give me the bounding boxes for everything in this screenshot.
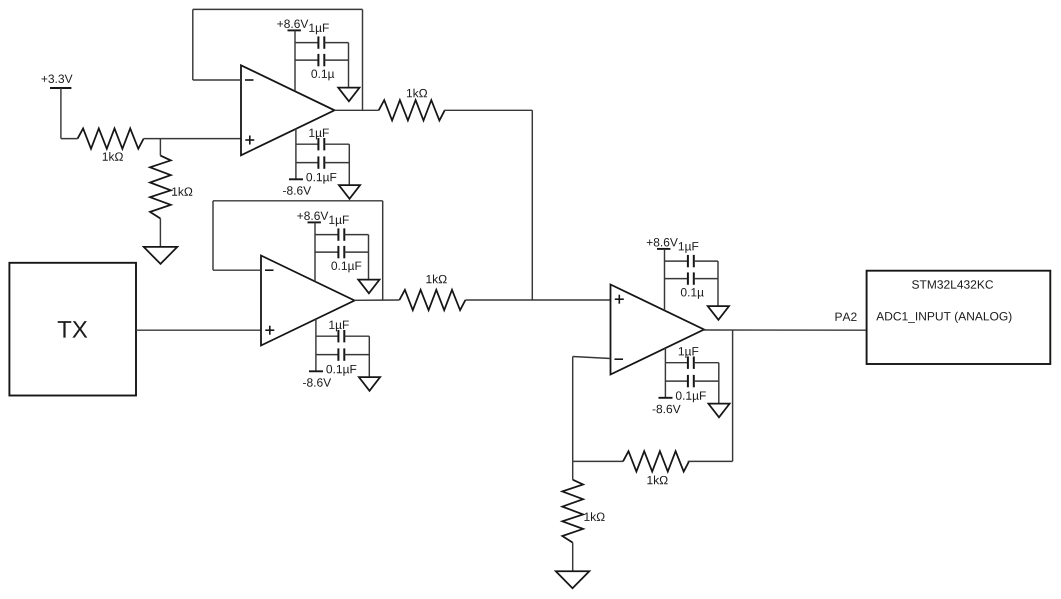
wire R5 to output node bbox=[688, 460, 733, 462]
resistor R1 1k bbox=[78, 128, 144, 148]
capacitor C 1uF +rail U2 bbox=[315, 234, 338, 236]
U2 non-inverting input (+) bbox=[265, 329, 274, 331]
U2 inverting input (-) bbox=[265, 269, 274, 271]
wire R3 to summing node bbox=[444, 109, 532, 111]
capacitor C 1uF -rail U1 bbox=[296, 143, 319, 145]
ground (U2 +rail caps) bbox=[358, 280, 379, 294]
label 0.1uF (U1 -rail) bbox=[306, 173, 336, 184]
wire U1 V- pin to -8.6V bbox=[295, 128, 297, 179]
wire U3 output to STM32 PA2 bbox=[704, 329, 871, 331]
+8.6V power bar (U2) bbox=[308, 221, 321, 223]
U1 non-inverting input (+) bbox=[245, 139, 254, 141]
wire down to summing node bbox=[531, 110, 533, 300]
wire U1 feedback right to output bbox=[362, 9, 364, 110]
label R4 1k bbox=[426, 275, 446, 284]
capacitor C 0.1uF +rail U1 bbox=[295, 59, 318, 61]
wire U1 output to R3 bbox=[335, 109, 379, 111]
-8.6V supply label (U3) bbox=[653, 405, 681, 413]
capacitor C 0.1uF +rail U2 bbox=[315, 251, 338, 253]
wire U3 V- pin to -8.6V bbox=[664, 348, 666, 398]
label 1uF (U1 +rail) bbox=[309, 24, 329, 35]
STM32L432KC label bbox=[912, 280, 993, 288]
capacitor C 1uF -rail U2 bbox=[316, 335, 339, 337]
wire U2 feedback right to output bbox=[382, 201, 384, 300]
label R5 1k bbox=[647, 476, 667, 485]
label 1uF (U3 -rail) bbox=[679, 347, 699, 358]
-8.6V power bar (U1) bbox=[289, 178, 303, 180]
ground (U2 -rail caps) bbox=[359, 377, 380, 391]
label 0.1µ (U1 +rail) bbox=[311, 70, 334, 81]
+8.6V supply label (U2) bbox=[297, 212, 328, 220]
-8.6V power bar (U3) bbox=[659, 397, 673, 399]
wire U2 feedback left bbox=[212, 201, 214, 270]
wire caps to ground (U3 +rail) bbox=[717, 261, 719, 306]
wire U1 - input feedback bbox=[193, 79, 241, 81]
wire feedback node down bbox=[572, 357, 574, 462]
label R2 1k bbox=[172, 187, 192, 196]
wire U2 output to R4 bbox=[354, 299, 399, 301]
wire to R1 bbox=[61, 138, 78, 140]
wire caps to ground (U2 +rail) bbox=[368, 235, 370, 280]
wire caps to ground (U1 +rail) bbox=[348, 43, 350, 88]
+8.6V power bar (U1) bbox=[288, 29, 301, 31]
wire +3.3V down bbox=[60, 88, 62, 139]
wire node to R6 bbox=[572, 461, 574, 479]
label R6 1k bbox=[584, 512, 604, 521]
op-amp U3 bbox=[611, 285, 705, 375]
ground (divider) bbox=[144, 247, 178, 264]
+8.6V supply label (U1) bbox=[277, 20, 308, 28]
U3 inverting input (-) bbox=[615, 358, 624, 360]
wire U1 feedback top bbox=[193, 8, 363, 10]
wire TX to U2 + input bbox=[136, 329, 261, 331]
label R3 1k bbox=[407, 89, 427, 98]
STM32L432KC block bbox=[867, 271, 1051, 364]
+3.3V power bar bbox=[50, 87, 71, 89]
pin PA2 label bbox=[835, 313, 856, 321]
+8.6V supply label (U3) bbox=[647, 238, 678, 246]
label R1 1k bbox=[103, 152, 123, 161]
resistor R5 1k feedback bbox=[623, 451, 689, 471]
op-amp U2 bbox=[261, 256, 355, 346]
wire +8.6V to U1 V+ pin bbox=[294, 30, 296, 91]
wire caps to ground (U2 -rail) bbox=[368, 336, 370, 377]
wire node to R2 bbox=[159, 139, 161, 156]
wire feedback up to output bbox=[732, 330, 734, 461]
wire caps to ground (U1 -rail) bbox=[348, 144, 350, 185]
label 1uF (U3 +rail) bbox=[679, 242, 699, 253]
label 0.1uF (U2 -rail) bbox=[326, 365, 356, 376]
-8.6V supply label (U1) bbox=[283, 186, 311, 194]
label 1uF (U2 -rail) bbox=[329, 321, 349, 332]
ground (U1 +rail caps) bbox=[338, 88, 359, 102]
wire R4 to U3 + input (summing node) bbox=[465, 299, 610, 301]
capacitor C 1uF -rail U3 bbox=[665, 362, 688, 364]
wire U1 feedback left bbox=[192, 9, 194, 80]
op-amp U1 bbox=[241, 65, 335, 155]
TX label bbox=[58, 321, 88, 338]
label 0.1µ (U3 +rail) bbox=[681, 288, 704, 299]
ADC1_INPUT label bbox=[876, 312, 1011, 323]
resistor R6 1k to ground bbox=[562, 480, 583, 543]
label 0.1µF (U2 +rail) bbox=[331, 262, 361, 273]
wire U2 V- pin to -8.6V bbox=[315, 319, 317, 371]
+8.6V power bar (U3) bbox=[657, 248, 670, 250]
U3 non-inverting input (+) bbox=[615, 298, 624, 300]
resistor R4 1k bbox=[399, 290, 465, 310]
TX block bbox=[9, 263, 136, 396]
capacitor C 0.1uF -rail U3 bbox=[665, 380, 688, 382]
wire +8.6V to U2 V+ pin bbox=[314, 222, 316, 281]
+3.3V supply label bbox=[41, 75, 72, 83]
wire caps to ground (U3 -rail) bbox=[718, 363, 720, 404]
label 1uF (U2 +rail) bbox=[329, 216, 349, 227]
ground (U3 +rail caps) bbox=[708, 306, 729, 320]
wire R2 to ground bbox=[159, 219, 161, 247]
wire R1 to U1 + input bbox=[144, 138, 241, 140]
U1 inverting input (-) bbox=[245, 79, 254, 81]
wire U2 - input feedback bbox=[213, 269, 261, 271]
wire U3 - input bbox=[573, 357, 611, 359]
capacitor C 1uF +rail U1 bbox=[295, 42, 318, 44]
resistor R3 1k bbox=[379, 100, 445, 120]
resistor R2 1k divider bbox=[150, 156, 171, 219]
capacitor C 1uF +rail U3 bbox=[665, 260, 688, 262]
wire R6 to ground bbox=[572, 543, 574, 572]
ground (feedback divider) bbox=[556, 571, 590, 588]
label 0.1uF (U3 -rail) bbox=[676, 391, 706, 402]
ground (U1 -rail caps) bbox=[339, 185, 360, 199]
label 1uF (U1 -rail) bbox=[309, 129, 329, 140]
capacitor C 0.1uF +rail U3 bbox=[665, 278, 688, 280]
-8.6V supply label (U2) bbox=[303, 378, 331, 386]
wire +8.6V to U3 V+ pin bbox=[664, 249, 666, 311]
wire U2 feedback top bbox=[213, 200, 383, 202]
wire to R5 bbox=[573, 460, 623, 462]
capacitor C 0.1uF -rail U2 bbox=[316, 354, 339, 356]
-8.6V power bar (U2) bbox=[309, 370, 323, 372]
ground (U3 -rail caps) bbox=[708, 404, 729, 418]
capacitor C 0.1uF -rail U1 bbox=[296, 162, 319, 164]
